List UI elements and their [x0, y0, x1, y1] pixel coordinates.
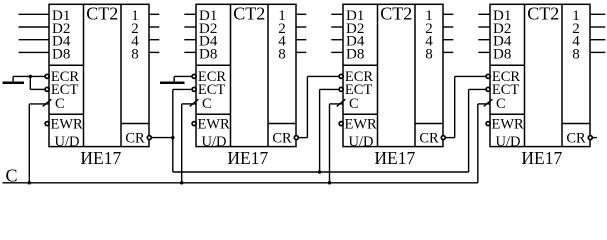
wire: U4 output 8 stub	[590, 51, 605, 53]
U1 pin C dynamic-input slash	[43, 99, 52, 106]
U1 output CR inversion circle	[147, 136, 151, 140]
svg-text:CR: CR	[125, 130, 145, 146]
wire: clock bus C	[3, 104, 491, 183]
svg-text:CR: CR	[419, 130, 439, 146]
svg-text:CT2: CT2	[233, 4, 265, 24]
svg-text:EWR: EWR	[492, 116, 525, 132]
wire: U1 input D4 stub	[19, 39, 50, 41]
svg-text:8: 8	[425, 46, 433, 62]
svg-text:CT2: CT2	[380, 4, 412, 24]
wire: U3 C input drop	[330, 104, 344, 183]
svg-text:8: 8	[572, 46, 580, 62]
wire: U3 input D4 stub	[331, 39, 343, 41]
wire: rail to U3 ECT riser	[320, 89, 339, 172]
wire: U1 ECR to ECT tie	[30, 76, 44, 89]
wire: U3 output 2 stub	[443, 26, 453, 28]
wire: U1 CR to U2 ECT riser	[173, 89, 192, 172]
svg-text:U/D: U/D	[202, 134, 227, 150]
U2 output CR inversion circle	[294, 136, 298, 140]
wire: U1 C input drop	[29, 104, 49, 183]
junction: rail / U3 ECT	[318, 170, 322, 174]
wire: U2 output 4 stub	[296, 39, 306, 41]
svg-text:C: C	[496, 96, 506, 112]
wire: U2 output 8 stub	[296, 51, 306, 53]
U4 output CR inversion circle	[588, 136, 592, 140]
signal-level (step) symbol at U2 ECR input	[160, 76, 192, 83]
U4 pin EWR inversion circle	[486, 122, 490, 126]
svg-text:U/D: U/D	[349, 134, 374, 150]
U3 pin ECR inversion circle	[339, 74, 343, 78]
wire: U4 input D4 stub	[478, 39, 490, 41]
svg-text:C: C	[202, 96, 212, 112]
U2 pin ECR inversion circle	[192, 74, 196, 78]
wire: U4 input D1 stub	[478, 13, 490, 15]
svg-text:EWR: EWR	[198, 116, 231, 132]
junction: C bus / U2 C	[180, 181, 184, 185]
svg-text:U/D: U/D	[496, 134, 521, 150]
U4 pin ECT inversion circle	[486, 87, 490, 91]
counter U4 (ИЕ17) box	[490, 4, 590, 146]
wire: U3 input D1 stub	[331, 13, 343, 15]
counter U2 (ИЕ17) box	[196, 4, 296, 146]
wire: U4 CR output stub	[593, 137, 597, 139]
svg-text:D8: D8	[52, 46, 70, 62]
wire: U4 output 1 stub	[590, 13, 605, 15]
U3 pin EWR inversion circle	[339, 122, 343, 126]
wire: U1 input D2 stub	[19, 26, 50, 28]
wire: U4 input D2 stub	[478, 26, 490, 28]
svg-text:ИЕ17: ИЕ17	[374, 148, 415, 168]
wire: U1 output 2 stub	[149, 26, 159, 28]
U2 pin C dynamic-input slash	[190, 99, 199, 106]
wire: U3 input D8 stub	[331, 51, 343, 53]
U4 pin ECR inversion circle	[486, 74, 490, 78]
wire: U3 output 8 stub	[443, 51, 453, 53]
wire: U2 output 2 stub	[296, 26, 306, 28]
svg-text:U/D: U/D	[55, 134, 80, 150]
wire: U1 output 8 stub	[149, 51, 159, 53]
U2 pin ECT inversion circle	[192, 87, 196, 91]
svg-text:D8: D8	[346, 46, 364, 62]
svg-text:CR: CR	[566, 130, 586, 146]
U3 pin C dynamic-input slash	[337, 99, 346, 106]
svg-text:CT2: CT2	[527, 4, 559, 24]
wire: U2 output 1 stub	[296, 13, 306, 15]
counter U1 (ИЕ17) box	[49, 4, 149, 146]
wire: U2 input D2 stub	[184, 26, 196, 28]
signal-level (step) symbol at U1 ECR/ECT input	[3, 76, 45, 83]
wire: U2 input D1 stub	[184, 13, 196, 15]
wire: U3 input D2 stub	[331, 26, 343, 28]
junction: U1 ECR/ECT tie	[29, 75, 33, 79]
wire: rail to U4 ECT riser	[469, 89, 486, 172]
wire: U4 output 2 stub	[590, 26, 605, 28]
junction: C bus / U1 C	[28, 181, 32, 185]
wire: U3 CR to U4 ECR	[446, 76, 486, 137]
wire: U2 CR to U3 ECR	[299, 76, 339, 137]
svg-text:8: 8	[278, 46, 286, 62]
wire: U2 input D4 stub	[184, 39, 196, 41]
svg-text:8: 8	[131, 46, 139, 62]
wire: U2 C input drop	[182, 104, 196, 183]
U1 pin ECT inversion circle	[45, 87, 49, 91]
svg-text:CR: CR	[272, 130, 292, 146]
U4 pin C dynamic-input slash	[484, 99, 493, 106]
svg-text:CT2: CT2	[86, 4, 118, 24]
U1 pin EWR inversion circle	[45, 122, 49, 126]
wire: U3 output 4 stub	[443, 39, 453, 41]
wire: U4 input D8 stub	[478, 51, 490, 53]
wire: U1 CR output stub	[152, 137, 173, 139]
svg-text:D8: D8	[493, 46, 511, 62]
svg-text:ИЕ17: ИЕ17	[521, 148, 562, 168]
wire: U1 input D1 stub	[19, 13, 50, 15]
wire: U1 output 4 stub	[149, 39, 159, 41]
svg-text:C: C	[55, 96, 65, 112]
U3 output CR inversion circle	[441, 136, 445, 140]
wire: U4 output 4 stub	[590, 39, 605, 41]
wire: U1 output 1 stub	[149, 13, 159, 15]
counter U3 (ИЕ17) box	[343, 4, 443, 146]
svg-text:EWR: EWR	[345, 116, 378, 132]
svg-text:EWR: EWR	[51, 116, 84, 132]
wire: U2 input D8 stub	[184, 51, 196, 53]
wire: CR1 carry rail	[173, 171, 469, 173]
junction: C bus / U3 C	[328, 181, 332, 185]
U1 pin ECR inversion circle	[45, 74, 49, 78]
U3 pin ECT inversion circle	[339, 87, 343, 91]
svg-text:C: C	[349, 96, 359, 112]
junction: U1 CR / U2 ECT	[171, 136, 175, 140]
U2 pin EWR inversion circle	[192, 122, 196, 126]
wire: U3 output 1 stub	[443, 13, 453, 15]
svg-text:D8: D8	[199, 46, 217, 62]
wire: U1 input D8 stub	[19, 51, 50, 53]
svg-text:ИЕ17: ИЕ17	[227, 148, 268, 168]
svg-text:ИЕ17: ИЕ17	[80, 148, 121, 168]
